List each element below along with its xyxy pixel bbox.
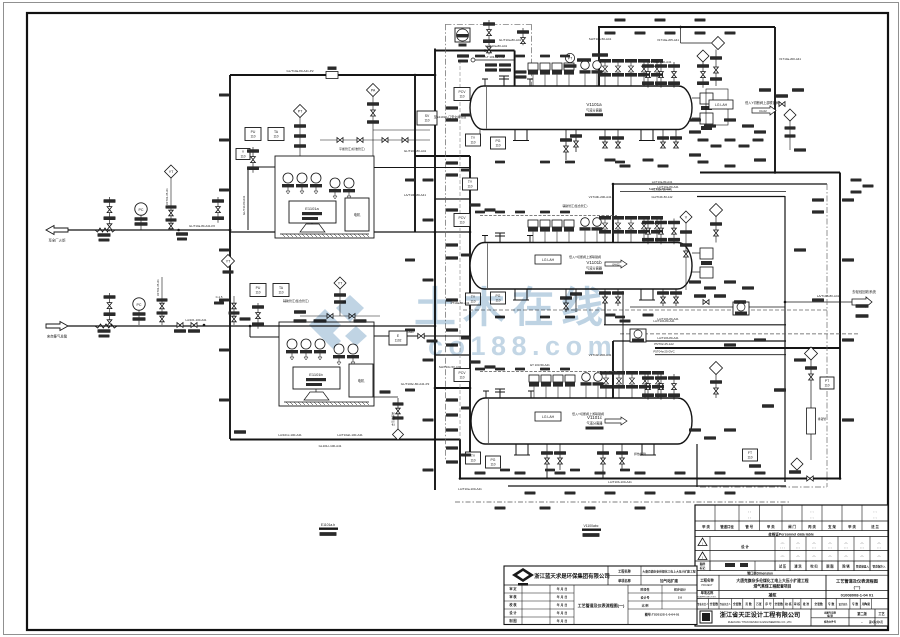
svg-text:110: 110 [424,118,429,122]
diamond x790 [784,109,796,121]
svg-text:标记: 标记 [699,566,706,570]
svg-text:LA/T10b-100-A41: LA/T10b-100-A41 [608,480,632,484]
svg-text:V1100abc: V1100abc [583,524,598,528]
vessel support [513,130,529,141]
level instrument bridle V1101b [692,248,713,278]
svg-text:年 月 日: 年 月 日 [557,594,568,599]
svg-text:页 数: 页 数 [744,602,752,606]
pipe main header top [230,74,435,76]
svg-text:LG LAH: LG LAH [715,103,728,107]
svg-text:设 计: 设 计 [509,610,517,615]
title block company row [700,609,888,626]
svg-text:单项名称: 单项名称 [618,578,632,583]
svg-text:-: - [861,620,862,624]
flex hose 2 [95,324,117,328]
feed2 riser x162 [161,277,163,325]
svg-text:气液分离器: 气液分离器 [586,265,603,270]
rect E1101b body [293,367,340,389]
svg-text:序 号: 序 号 [764,602,772,606]
svg-text:设 计: 设 计 [741,544,749,549]
svg-text:煤气蒸煤工程配套项目: 煤气蒸煤工程配套项目 [754,583,792,588]
svg-text:co188.com: co188.com [428,331,617,361]
pipe feed line 1 [68,229,230,231]
signal dash line y334 [620,333,858,335]
svg-text:V1T10a-205-A41: V1T10a-205-A41 [657,38,679,42]
title block symbol legend row [702,505,879,531]
svg-text:GL/T10a-80-A41-P2: GL/T10a-80-A41-P2 [189,224,215,228]
svg-text:辅助管汇(集合管汇): 辅助管汇(集合管汇) [283,298,309,303]
svg-text:支 架: 支 架 [827,524,836,529]
title block signature row [699,561,886,571]
pipe y388 connector [435,387,470,389]
flow arrow to recovery [852,297,872,307]
svg-text:排凝管: 排凝管 [818,417,827,421]
boxed instrument x638 [630,329,646,342]
svg-text:GL/T10bc-80-A41-P2: GL/T10bc-80-A41-P2 [401,382,430,386]
svg-text:, ,: , , [810,508,813,513]
package instruments [286,339,359,365]
svg-text:比 例: 比 例 [642,603,649,608]
svg-text:GL/T10a-80-A41-P2: GL/T10a-80-A41-P2 [286,69,313,73]
svg-text:, , ,: , , , [860,558,865,562]
svg-text:E1101a: E1101a [305,206,319,211]
feed2 line valves [177,323,183,328]
svg-text:110: 110 [470,458,475,462]
svg-text:阀 门: 阀 门 [788,524,796,529]
vessel support [639,130,655,141]
svg-text:专 数: 专 数 [852,602,859,606]
svg-text:甲 类: 甲 类 [702,524,710,529]
cluster right x690 y290-330 [680,211,692,223]
svg-text:LA/T10ab-100-A41: LA/T10ab-100-A41 [337,433,363,437]
pipe bottom collector y439 [230,439,460,441]
diamond above aux manifold [334,277,346,289]
svg-text:除 锈: 除 锈 [842,564,850,569]
svg-text:!: ! [702,542,703,546]
svg-text:PC: PC [139,208,144,212]
svg-text:GL/T10-80-A41: GL/T10-80-A41 [242,195,246,215]
svg-text:110: 110 [467,184,472,188]
drain cluster below V1101a [565,130,567,161]
svg-text:110: 110 [495,143,500,147]
svg-text:修改文件号: 修改文件号 [823,620,837,624]
pipe V1 inlet drop x514 [514,51,516,87]
pipe riser x435 [434,49,436,491]
svg-text:2.0: 2.0 [678,596,683,600]
svg-text:去污油系统: 去污油系统 [391,412,395,426]
svg-text:P5/T02-25-1A2: P5/T02-25-1A2 [654,342,674,346]
svg-text:V1T03-35-A1: V1T03-35-A1 [165,188,169,205]
pipe package2 inlet stub [250,336,279,338]
svg-text:万张: 万张 [755,602,762,606]
signal dash line y310 [463,309,827,311]
svg-text:合格证Personnel data lable: 合格证Personnel data lable [767,532,814,537]
svg-text:加气站扩建: 加气站扩建 [659,578,678,583]
V2 relief header [613,183,827,185]
svg-text:管道保温入: 管道保温入 [856,565,869,569]
flex hose 1 [95,228,115,232]
boundary dash-dot frame [445,24,827,487]
svg-text:, , ,: , , , [844,558,849,562]
YT diamond feed1 [165,165,178,178]
svg-text:SH/T10a-50-A41: SH/T10a-50-A41 [589,37,612,41]
instrument row above vessel [0,0,1,1]
support pedestal [300,223,325,232]
nozzle [482,79,488,86]
svg-text:, , ,: , , , [796,558,801,562]
labels above V1101b [589,195,612,199]
svg-text:来自集气总管: 来自集气总管 [47,334,68,339]
pipe y199 connector [435,198,470,200]
svg-text:校 核: 校 核 [509,602,517,607]
svg-text:浙江省天正设计工程有限公司: 浙江省天正设计工程有限公司 [720,611,800,619]
svg-text:辅助管汇(集合管汇): 辅助管汇(集合管汇) [562,203,587,208]
instrument row above vessel [0,0,1,1]
svg-text:图号:TS2012S-1-0-04-01: 图号:TS2012S-1-0-04-01 [645,612,680,617]
pipe left riser [229,75,231,439]
svg-text:全套数: 全套数 [732,602,742,606]
diamond logic V1101a right [697,50,709,62]
svg-text:年 月 日: 年 月 日 [557,586,568,591]
svg-text:甲 类: 甲 类 [767,524,775,529]
pipe riser x470 [469,156,471,455]
V1101 note [583,524,598,528]
pipe right header y172 [700,172,840,174]
pipe riser x455 bottom [459,439,461,479]
svg-text:110: 110 [273,134,278,138]
feed2 valve cluster [109,293,111,327]
vessel support [639,289,655,300]
V3 drains to header [546,470,548,479]
svg-text:GL101c-100-A41: GL101c-100-A41 [319,444,342,448]
vessel support [640,444,656,455]
title block center [504,566,697,625]
title block right [695,505,888,626]
vessel support [514,444,530,455]
relief diamond V1101c [710,362,723,375]
labels mid band [404,149,427,153]
pipe package2 inlet [250,325,337,327]
svg-text:LA/T10B-80-A41: LA/T10B-80-A41 [817,294,840,298]
pipe right riser x775 [774,27,776,172]
svg-text:V1101b: V1101b [586,260,602,265]
vessel2 outlet drop x623 [622,291,624,388]
title block project rows [697,575,878,609]
pipe y355 connector [655,354,786,356]
svg-text:工艺管道及仪表流程图(一): 工艺管道及仪表流程图(一) [578,602,625,608]
relief diamond V1101b [710,204,723,217]
watermark logo [309,295,367,349]
svg-text:110: 110 [747,455,752,459]
left cluster below V1101a [466,134,481,146]
svg-text:110: 110 [255,290,260,294]
svg-text:YT: YT [226,259,231,263]
svg-text:脱 脂: 脱 脂 [826,564,834,569]
svg-text:法 兰: 法 兰 [871,524,879,529]
legend caption [767,532,814,537]
svg-text:LA/T10a-80-A41: LA/T10a-80-A41 [657,185,679,189]
density labels [219,19,874,495]
svg-text:V1T03-35-A1: V1T03-35-A1 [156,279,160,296]
svg-text:V1T10b-200-A41: V1T10b-200-A41 [589,195,612,199]
instrument cluster top center [457,54,469,57]
svg-text:全套数: 全套数 [709,602,719,606]
valve cluster above V1101c right [647,374,649,400]
support pedestal [304,389,329,400]
pipe package1 inlet [248,166,275,168]
center block right cells [628,585,697,625]
svg-text:丙 类: 丙 类 [808,524,816,529]
svg-text:110: 110 [459,94,464,98]
svg-text:低入Y切断阀上游联锁阀: 低入Y切断阀上游联锁阀 [745,100,779,105]
svg-text:110: 110 [250,134,255,138]
svg-text:LA/T10b-80-A41: LA/T10b-80-A41 [657,317,679,321]
nozzle [528,391,534,398]
svg-text:PROJECT: PROJECT [701,584,713,587]
svg-text:1102: 1102 [395,338,402,342]
svg-text:YT: YT [338,281,343,285]
svg-text:ET 103-50-A41: ET 103-50-A41 [530,363,550,367]
svg-text:阶段性: 阶段性 [640,587,649,592]
svg-text:单项名称: 单项名称 [701,590,715,595]
feed1 valve cluster [109,197,111,231]
svg-text:!: ! [702,556,703,560]
svg-text:审 定: 审 定 [509,586,517,591]
svg-text:LG LAH: LG LAH [542,415,555,419]
svg-text:, ,: , , [873,514,876,519]
compressor package E1101a [275,156,374,238]
center block signature grid [504,585,625,625]
pipe right riser x785 [784,196,786,482]
svg-text:平衡管汇(标准管汇): 平衡管汇(标准管汇) [339,146,365,151]
instruments above package 2 [250,284,266,297]
svg-text:YT: YT [169,170,174,174]
svg-text:PT: PT [298,109,303,113]
svg-text:LA/T10b-80-A41: LA/T10b-80-A41 [404,193,426,197]
V1 top nozzle flange [499,76,509,86]
svg-text:LA/T10b-80-A41: LA/T10b-80-A41 [657,336,679,340]
svg-text:110: 110 [824,383,829,387]
gauge on header [455,28,470,47]
svg-text:, , ,: , , , [877,545,882,549]
YT diamond feed2 on riser [222,255,235,268]
PCN caption [747,570,773,575]
svg-text:, , ,: , , , [828,545,833,549]
rect E1101a body [289,201,336,223]
svg-text:电机: 电机 [354,212,361,217]
svg-text:, , ,: , , , [812,545,817,549]
title block staff row [697,599,871,610]
svg-text:初步设计: 初步设计 [674,587,686,592]
valve cluster above V1101a right [647,62,649,88]
svg-text:ZHEJIANG TITAN DESIGN & ENGINE: ZHEJIANG TITAN DESIGN & ENGINEERING CO.,… [728,620,793,624]
V3 relief header [613,340,786,342]
svg-text:管道口径: 管道口径 [720,524,734,529]
vessel3 right outlet riser [696,444,698,487]
svg-text:, , ,: , , , [780,558,785,562]
title block notes band [698,537,881,571]
svg-text:110: 110 [459,375,464,379]
svg-text:工程名称: 工程名称 [618,569,632,574]
svg-text:E1101b: E1101b [309,372,323,377]
svg-text:LA/101-100-A41: LA/101-100-A41 [185,318,206,322]
svg-text:, , ,: , , , [828,558,833,562]
flow arrow feed 2 [46,322,68,331]
svg-text:V1T10a-200-A41: V1T10a-200-A41 [649,60,672,64]
svg-text:110: 110 [490,462,495,466]
svg-text:设计号: 设计号 [640,595,649,600]
svg-text:V1101a: V1101a [586,102,602,107]
svg-text:拌热伴管: 拌热伴管 [634,451,646,456]
svg-text:工艺管道及仪表流程图: 工艺管道及仪表流程图 [836,578,878,585]
pipe package2 outlet [374,335,470,337]
svg-text:批 准: 批 准 [803,602,810,606]
svg-text:, , ,: , , , [780,545,785,549]
pipe bottom header y486 [508,485,786,487]
pipe y348 connector [655,347,840,349]
pipe package1 outlet [374,167,470,169]
svg-text:V1T10a-200-A41: V1T10a-200-A41 [779,57,801,61]
PG gauge feed2 [133,298,145,310]
svg-text:, , ,: , , , [877,558,882,562]
svg-text:PA: PA [371,88,376,92]
svg-text:, ,: , , [873,508,876,513]
LSH box V1101b [535,255,561,264]
svg-text:全套数: 全套数 [813,602,823,606]
right column psv branch [805,347,818,360]
pipe feed line 2 [68,325,435,327]
svg-text:审 核: 审 核 [509,594,517,599]
level instrument bridle V1101a [692,93,713,130]
compressor package E1101b [279,322,374,406]
svg-text:浙江蓝天求是环保集团有限公司: 浙江蓝天求是环保集团有限公司 [534,572,609,580]
V2 top nozzle flange [495,233,505,243]
svg-text:, ,: , , [748,514,751,519]
svg-text:吹 扫: 吹 扫 [810,564,817,569]
heat trace dashdot line y502 [455,501,790,503]
svg-text:110: 110 [278,290,283,294]
svg-text:LA/T10a-100-A41: LA/T10a-100-A41 [458,487,482,491]
svg-text:清 洗: 清 洗 [794,564,802,569]
LSH box V1101c [535,412,561,421]
svg-text:年 月 日: 年 月 日 [557,610,568,615]
pipe y232 line [230,231,470,233]
svg-text:气液分离器: 气液分离器 [587,421,604,426]
mid instruments x440 band [454,88,470,101]
V2 relief riser [612,184,614,243]
svg-text:制 图: 制 图 [509,618,516,623]
svg-text:凝浆: 凝浆 [769,592,778,598]
valve cluster above V1101b right [647,219,649,245]
svg-text:土木在线: 土木在线 [414,284,610,331]
svg-text:, , ,: , , , [860,545,865,549]
V2 aux header y191 [620,191,786,193]
svg-text:GL/T10a-80-A41: GL/T10a-80-A41 [499,38,522,42]
E1101 note [321,523,335,527]
nozzle [527,236,533,243]
package1 inlet riser [247,167,249,230]
svg-text:SUBPROJECT NO.: SUBPROJECT NO. [697,597,717,599]
svg-text:甲 类: 甲 类 [848,524,856,529]
rect aux box [345,198,369,231]
svg-text:01008008-1-04 01: 01008008-1-04 01 [841,593,874,598]
svg-text:管口表Dimension: 管口表Dimension [747,570,773,575]
svg-text:110: 110 [470,140,475,144]
ground hatch [284,402,369,405]
sub line y60 [475,59,515,61]
inline flow element y75 [326,67,338,79]
svg-text:低入Y切断阀上游联锁阀: 低入Y切断阀上游联锁阀 [569,254,601,259]
svg-text:E1101a.b: E1101a.b [321,523,335,527]
vessel V1101c [471,398,692,444]
pipe bottom header y478 [460,478,840,480]
pipe header y50 [435,50,515,52]
ground hatch [280,234,369,237]
flow arrow flare out [46,226,68,235]
instrument row above vessel [0,0,1,1]
vessel2 outlet drop x605 [604,291,606,325]
vessel V1101b [470,243,692,290]
boxed instrument x741 [733,302,749,315]
vessel support [513,289,529,300]
boundary dash vertical x460 [459,60,461,440]
svg-text:全套数: 全套数 [773,602,783,606]
diamond above package1 mid [367,84,380,97]
nozzle [527,79,533,86]
nozzle [483,391,489,398]
svg-text:SH/T10c-50-A41: SH/T10c-50-A41 [439,365,462,369]
orifice run above package1 [320,139,430,141]
relief diamond top [680,26,682,43]
right column lower valves [807,476,813,481]
svg-text:P5T04a-25-DVC: P5T04a-25-DVC [653,350,674,354]
PG gauge feed1 [135,203,147,215]
svg-text:用陶瓷: 用陶瓷 [861,602,871,606]
pipe y196 connector right [697,196,785,198]
svg-text:至全厂火炬: 至全厂火炬 [49,238,67,243]
svg-text:大唐克旗杂多伦煤化工电上大压小扩建工程: 大唐克旗杂多伦煤化工电上大压小扩建工程 [641,570,695,574]
svg-text:工艺: 工艺 [878,611,885,616]
feed1 line tags right [176,232,188,235]
svg-text:审 核: 审 核 [794,602,801,606]
svg-text:校 核: 校 核 [785,602,792,606]
package2 outlet drain branch [397,398,399,429]
watermark text [414,284,617,361]
svg-text:试 压: 试 压 [779,564,787,569]
pipe y355 connector [435,354,470,356]
svg-text:, ,: , , [810,514,813,519]
svg-text:110: 110 [240,154,245,158]
svg-text:管道保冷入: 管道保冷入 [873,565,886,569]
svg-text:04-02: 04-02 [612,262,620,266]
svg-text:大唐克旗杂多伦煤化工电上大压小扩建工程: 大唐克旗杂多伦煤化工电上大压小扩建工程 [736,578,808,583]
svg-text:LG LAH: LG LAH [542,258,555,262]
rect aux box [349,364,373,397]
LSH box V1101a [706,89,728,125]
cluster x234 [233,296,235,325]
pipe right riser x840 [839,173,841,479]
drain clusters below V1101c [546,444,548,470]
drain clusters below V1101b [565,289,567,312]
svg-text:PC: PC [137,303,142,307]
svg-text:, ,: , , [748,508,751,513]
package instruments [282,173,355,199]
svg-text:第二版: 第二版 [857,611,867,616]
svg-text:工程名称: 工程名称 [700,578,714,583]
pipe y152 connector [415,155,470,157]
drain cluster below V1101a mid [604,130,606,149]
svg-text:04-02: 04-02 [759,109,767,113]
